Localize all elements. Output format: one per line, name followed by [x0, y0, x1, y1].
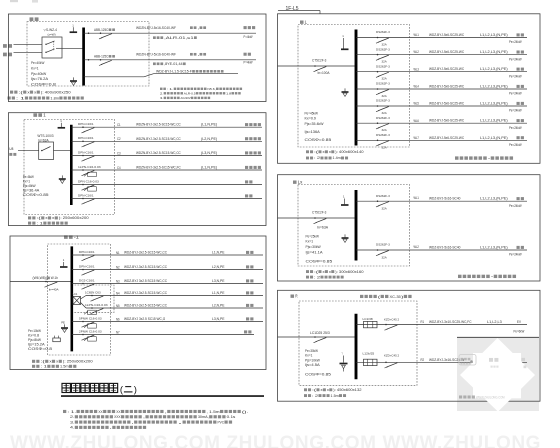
svg-text:Pe=24kW: Pe=24kW — [509, 126, 522, 130]
drawing notes — [63, 410, 66, 413]
svg-text:1LPN-C16-0.03: 1LPN-C16-0.03 — [78, 165, 101, 169]
svg-text:1F-L5: 1F-L5 — [286, 6, 299, 12]
panel ALx mounting note — [306, 276, 309, 279]
svg-text:Kx=0.8: Kx=0.8 — [28, 334, 39, 338]
load name label WL5 AL — [517, 102, 520, 105]
svg-text:(L1,N,PE): (L1,N,PE) — [201, 166, 217, 170]
svg-text:Ijs=36.4A: Ijs=36.4A — [23, 189, 41, 193]
node N bar AR — [343, 356, 345, 363]
breaker C3 AE-1 — [82, 155, 84, 157]
svg-text:x: x — [27, 90, 29, 94]
svg-text:x: x — [45, 216, 47, 220]
svg-text:2.: 2. — [160, 91, 164, 95]
svg-text:,: , — [197, 52, 199, 56]
svg-text:WDZN-BYJ-3x2.5-SC15-WC,CC: WDZN-BYJ-3x2.5-SC15-WC,CC — [136, 151, 181, 155]
svg-text:): 400x900x250: ): 400x900x250 — [41, 90, 71, 94]
svg-text:Pjs=8kW: Pjs=8kW — [28, 338, 42, 342]
breaker WL2 AL — [377, 54, 379, 56]
svg-text:Pe=24kW: Pe=24kW — [509, 92, 522, 96]
ground PE bar AW — [73, 77, 75, 80]
wire circuit C4 AE-1 — [71, 169, 262, 171]
svg-text:WDZN-BYJ-5x16-SC40-WF: WDZN-BYJ-5x16-SC40-WF — [136, 52, 176, 56]
svg-text:WDZ-BYJ-5x6-SC25-WC: WDZ-BYJ-5x6-SC25-WC — [429, 67, 465, 71]
svg-text:WDZ-BYJ-L1.5-SC15-F: WDZ-BYJ-L1.5-SC15-F — [156, 69, 192, 73]
svg-text:ALR-0.5: ALR-0.5 — [184, 91, 196, 95]
svg-text:(W6,W8)(: (W6,W8)( — [33, 276, 48, 280]
wire incoming AL — [278, 65, 355, 67]
wire circuit WL4 AL — [356, 88, 527, 90]
svg-text:WDZ-BYJ-3x2.5-SC15-WC,CC: WDZ-BYJ-3x2.5-SC15-WC,CC — [124, 291, 168, 295]
load name label WL2 AL — [517, 50, 520, 53]
svg-text:DS262F-3: DS262F-3 — [376, 133, 390, 137]
breaker WL2 ALx — [377, 249, 379, 251]
svg-text:: 1: : 1 — [37, 221, 43, 225]
breaker QF R1 AR — [385, 324, 387, 326]
wire circuit C3 AE-1 — [71, 155, 262, 157]
svg-text:,: , — [197, 26, 199, 30]
panel AE-1 dashed boundary — [24, 120, 115, 215]
svg-text:Ijs=136A: Ijs=136A — [304, 130, 320, 134]
svg-text:WDZ-BYJ-5x6-SC25-WC: WDZ-BYJ-5x6-SC25-WC — [429, 33, 465, 37]
load name W2 spare — [244, 53, 247, 56]
svg-text:3.: 3. — [160, 96, 164, 100]
breaker QF0 AE-1 contact — [41, 150, 42, 151]
wire circuit C1 AE-1 — [71, 126, 262, 128]
svg-text:32A: 32A — [382, 145, 388, 149]
svg-text:,: , — [132, 419, 134, 424]
svg-text:: 2: : 2 — [314, 275, 320, 279]
svg-text:): 450x600x132: ): 450x600x132 — [333, 388, 361, 392]
sub-diagram caption vertical riser — [455, 156, 459, 159]
title underline — [61, 395, 264, 397]
svg-text:DS262F-3: DS262F-3 — [376, 82, 390, 86]
ground PE bar AL — [344, 88, 346, 91]
breaker C2 AE-1 — [82, 141, 84, 143]
svg-text:WDZ-BYJ-3x2.5-SC15-WC,CC: WDZ-BYJ-3x2.5-SC15-WC,CC — [124, 265, 168, 269]
svg-text:DPN C16-0.03: DPN C16-0.03 — [78, 179, 99, 183]
svg-text:x: x — [329, 270, 331, 274]
watermark background square — [457, 337, 539, 411]
svg-text:(L1,N,PE): (L1,N,PE) — [201, 123, 217, 127]
breaker QF2 — [88, 59, 90, 61]
panel AW dashed boundary — [27, 22, 149, 87]
svg-text:Kx=0.9: Kx=0.9 — [305, 116, 317, 120]
load name label WL1 AL — [517, 33, 520, 36]
busbar AL — [355, 30, 358, 146]
svg-text:Pe=24kW: Pe=24kW — [509, 109, 522, 113]
svg-text:1.4m: 1.4m — [333, 156, 341, 160]
node N bar AL — [343, 38, 345, 49]
load name label N6 AL-1 — [246, 317, 249, 320]
svg-text:2PNW C16-0.03: 2PNW C16-0.03 — [79, 329, 102, 333]
load name label WL1 ALx — [517, 197, 520, 200]
breaker C1 AE-1 — [82, 126, 84, 128]
panel ALx enclosure — [278, 175, 541, 281]
svg-text:KZD+C45 2: KZD+C45 2 — [384, 318, 399, 322]
svg-text:): 250x600x200: ): 250x600x200 — [59, 216, 89, 220]
load name label N3 AL-1 — [246, 279, 249, 282]
breaker WL3 AL — [377, 71, 379, 73]
sub-diagram caption lift machine room — [458, 275, 462, 278]
svg-text:().: (). — [242, 409, 249, 414]
load name label N4 AL-1 — [246, 291, 249, 294]
svg-text:WL4: WL4 — [414, 85, 420, 89]
svg-text:Pe=24kW: Pe=24kW — [509, 74, 522, 78]
breaker QF1 — [88, 32, 90, 34]
load name label N5 AL-1 — [246, 304, 249, 307]
breaker WL7 AL — [377, 140, 379, 142]
wire circuit WL1 AL — [356, 37, 527, 39]
dashed boundary RCD sub-assembly — [72, 285, 115, 313]
breaker N4 AL-1 — [91, 295, 93, 297]
svg-text:Pe=24kW: Pe=24kW — [509, 57, 522, 61]
svg-text:x: x — [49, 360, 51, 364]
svg-text:WWW.ZHULONG.COM: WWW.ZHULONG.COM — [476, 395, 505, 399]
svg-text:C3: C3 — [117, 151, 121, 155]
wire circuit N3 AL-1 — [72, 283, 263, 285]
svg-text:Kx=1: Kx=1 — [305, 354, 313, 358]
switch QS ALx — [314, 217, 316, 219]
svg-text:DPN-C16/1: DPN-C16/1 — [78, 193, 94, 197]
panel AR dashed boundary — [299, 301, 417, 385]
svg-text:L3,N,PE: L3,N,PE — [212, 317, 225, 321]
ground PE bar AL-1 — [64, 324, 66, 327]
switch QS AL — [314, 65, 316, 67]
svg-text:N1: N1 — [116, 251, 120, 255]
svg-text:4.: 4. — [70, 425, 74, 430]
route label W1 — [190, 26, 193, 29]
svg-text:WDZN-BYJ-3x2.5-SC15-WC,FC: WDZN-BYJ-3x2.5-SC15-WC,FC — [136, 166, 181, 170]
breaker QF0 AE-1 body — [39, 142, 54, 160]
svg-text:COSΦ=0.85: COSΦ=0.85 — [23, 193, 49, 197]
svg-text:2.: 2. — [70, 414, 74, 419]
svg-text:32A: 32A — [382, 111, 388, 115]
wire circuit N7 AL-1 — [72, 334, 254, 336]
wire circuit N6 AL-1 — [72, 321, 263, 323]
svg-text:DS262F-3: DS262F-3 — [376, 116, 390, 120]
load name label WL6 AL — [517, 119, 520, 122]
svg-text:1.8: 1.8 — [226, 91, 231, 95]
breaker WL5 AL — [377, 105, 379, 107]
load name label WL3 AL — [517, 68, 520, 71]
svg-text:x: x — [329, 150, 331, 154]
route label W2 — [190, 53, 193, 56]
svg-text:L3,N,PE: L3,N,PE — [212, 279, 225, 283]
svg-text:COSΦ=0.8: COSΦ=0.8 — [31, 82, 56, 86]
svg-text:32A: 32A — [382, 77, 388, 81]
breaker N2 AL-1 — [82, 269, 84, 271]
svg-text:x: x — [34, 90, 36, 94]
svg-text:-1: -1 — [74, 235, 80, 240]
wire QF0 to busbar — [54, 150, 71, 152]
svg-text:L1,L2,L3,(N,PE): L1,L2,L3,(N,PE) — [480, 85, 508, 89]
breaker WL1 AL — [377, 37, 379, 39]
svg-text:N4: N4 — [116, 291, 120, 295]
svg-text:L1,L2,L3,(N,PE): L1,L2,L3,(N,PE) — [480, 102, 508, 106]
svg-text:x: x — [327, 388, 329, 392]
svg-text:(x=W): (x=W) — [48, 32, 56, 36]
panel AL enclosure — [278, 14, 541, 164]
svg-text:Kx=1: Kx=1 — [31, 67, 39, 71]
svg-text:L1,N,PE: L1,N,PE — [212, 251, 225, 255]
svg-text:XX: XX — [98, 409, 103, 414]
panel AE-1 enclosure — [8, 113, 266, 226]
svg-text:,ALR-01,≤1: ,ALR-01,≤1 — [164, 36, 194, 40]
svg-text:N6: N6 — [116, 317, 120, 321]
svg-text:Kx=1: Kx=1 — [23, 180, 31, 184]
contactor coil block KA AL-1 — [73, 297, 81, 305]
svg-text:WL2: WL2 — [414, 245, 420, 249]
svg-text:: 2: : 2 — [314, 156, 320, 160]
contactor KM C5 AE-1 — [84, 188, 88, 191]
svg-text:WL2: WL2 — [414, 50, 420, 54]
svg-text:(L2,N,PE): (L2,N,PE) — [201, 137, 217, 141]
svg-text:x: x — [322, 270, 324, 274]
svg-text:Pjs=35.4kW: Pjs=35.4kW — [305, 122, 325, 126]
svg-text:Pe=25kW: Pe=25kW — [306, 234, 320, 238]
svg-text:1.5m: 1.5m — [60, 365, 69, 369]
svg-text:,: , — [110, 425, 112, 430]
panel AL-1 name label — [64, 235, 68, 239]
panel AL dimension label — [306, 150, 309, 153]
wire circuit WL2 ALx — [356, 249, 527, 251]
svg-text:32A: 32A — [382, 207, 388, 211]
wire circuit R2 AR — [356, 361, 527, 363]
breaker WL4 AL — [377, 88, 379, 90]
svg-text:R: R — [295, 294, 297, 299]
svg-text:WDZ-BYJ-5x16-SC40: WDZ-BYJ-5x16-SC40 — [429, 197, 461, 201]
busbar AR — [355, 314, 358, 380]
switch QS AR — [314, 336, 316, 338]
breaker N6 AL-1 — [82, 321, 84, 323]
panel AR caption escalator supply — [360, 295, 363, 298]
svg-text:Pe=40kW: Pe=40kW — [31, 61, 45, 65]
svg-text:PVC: PVC — [218, 419, 225, 424]
svg-text:): ) — [134, 385, 137, 396]
svg-text:: 1: : 1 — [41, 365, 47, 369]
panel AL dashed boundary — [298, 25, 410, 148]
wire circuit C5 AE-1 — [71, 184, 262, 186]
wire circuit N5 AL-1 — [81, 303, 87, 309]
wire incoming AE-1 — [18, 150, 39, 152]
busbar AE-1 — [70, 125, 73, 205]
wire circuit WL6 AL — [356, 122, 527, 124]
svg-text:XX: XX — [116, 409, 121, 414]
surge protector SPD AL-1 — [53, 338, 61, 342]
svg-text:,: , — [165, 409, 167, 414]
svg-text:Pjs=8kW: Pjs=8kW — [23, 184, 37, 188]
watermark seal outline — [459, 355, 476, 366]
svg-text:WDZ-BYJ-3x10-SC25-WC,FC: WDZ-BYJ-3x10-SC25-WC,FC — [429, 320, 472, 324]
svg-text:Pe=24kW: Pe=24kW — [509, 253, 522, 257]
svg-text:32A: 32A — [382, 60, 388, 64]
svg-text:DS262F-3: DS262F-3 — [376, 243, 390, 247]
svg-text:WDZ-BYJ-5x6-SC25-WC: WDZ-BYJ-5x6-SC25-WC — [429, 119, 465, 123]
busbar AW — [82, 28, 85, 86]
breaker C5 AE-1 — [82, 184, 84, 186]
load name W1 fire hydrant — [244, 26, 247, 29]
svg-text:Pe=24kW: Pe=24kW — [509, 204, 522, 208]
svg-text:Ijs=41.1A: Ijs=41.1A — [305, 251, 323, 255]
svg-text:WDZ-BYJ-5x6-SC25-WC: WDZ-BYJ-5x6-SC25-WC — [429, 50, 465, 54]
load name label N7 AL-1 — [244, 330, 247, 333]
svg-text:WL1: WL1 — [414, 33, 420, 37]
wire ATS output to busbar — [62, 47, 83, 49]
panel AL name label — [300, 20, 304, 23]
svg-text:XC-35: XC-35 — [390, 294, 402, 299]
load name label WL4 AL — [517, 85, 520, 88]
node N bar ALx — [344, 199, 346, 205]
svg-text:C4: C4 — [117, 166, 121, 170]
svg-text:: 1.: : 1. — [67, 409, 76, 414]
svg-text:,: , — [143, 414, 145, 419]
breaker C4 AE-1 — [82, 169, 84, 171]
panel AW name label — [30, 17, 34, 21]
node standby supply label — [3, 53, 7, 57]
svg-text:LC1: LC1 — [73, 292, 78, 296]
panel AL-1 dimension label — [32, 360, 35, 363]
svg-text:N2: N2 — [116, 265, 120, 269]
watermark faint text right — [522, 358, 526, 361]
wire circuit N4 AL-1 — [81, 296, 87, 300]
svg-text:LC1/38: LC1/38 — [363, 317, 373, 321]
wire circuit C2 AE-1 — [71, 140, 262, 142]
wire incoming ALx — [278, 217, 355, 219]
node N bar AW — [70, 31, 78, 33]
load name label C3 AE-1 — [245, 151, 248, 154]
svg-text:N5: N5 — [116, 304, 120, 308]
svg-text:DPN-C16/1: DPN-C16/1 — [78, 150, 94, 154]
svg-text:L2,N,PE: L2,N,PE — [212, 304, 225, 308]
contactor KM N7 AL-1 — [84, 338, 88, 341]
watermark square top edge — [457, 336, 539, 338]
svg-text:Pe=24kW: Pe=24kW — [509, 40, 522, 44]
svg-text:L2,N,PE: L2,N,PE — [212, 265, 225, 269]
contactor KM2 AR body — [364, 359, 378, 365]
wire incoming AR — [278, 336, 355, 338]
ATS contacts — [45, 44, 46, 45]
wire circuit N2 AL-1 — [72, 269, 263, 271]
panel AW mounting note — [8, 96, 11, 99]
panel AL-1 enclosure — [10, 236, 266, 370]
load name label C2 AE-1 — [245, 137, 248, 140]
svg-text:, 1.5m: , 1.5m — [207, 409, 220, 414]
breaker N1 AL-1 — [82, 254, 84, 256]
breaker WL6 AL — [377, 122, 379, 124]
wire circuit WL5 AL — [356, 105, 527, 107]
svg-text:32A: 32A — [382, 128, 388, 132]
svg-text:Ijs=76.2A: Ijs=76.2A — [31, 77, 49, 81]
svg-text:): 300x600x160: ): 300x600x160 — [335, 270, 363, 274]
wire feeder W3 — [84, 76, 144, 78]
svg-text:P=4kW: P=4kW — [244, 61, 253, 65]
drawing title — [62, 383, 70, 392]
wire circuit WL3 AL — [356, 71, 527, 73]
svg-text:x: x — [56, 360, 58, 364]
panel AE-1 mounting note — [28, 222, 31, 225]
wire circuit R1 AR — [356, 324, 527, 326]
watermark faint url text — [459, 395, 462, 398]
svg-text:DG2-C16/1: DG2-C16/1 — [79, 278, 95, 282]
svg-text:1.5m: 1.5m — [331, 394, 339, 398]
load name label N1 AL-1 — [246, 251, 249, 254]
stray text fragment top edge — [10, 0, 18, 2]
svg-text:C1: C1 — [117, 123, 121, 127]
wire circuit WL2 AL — [356, 54, 527, 56]
svg-text:WL1: WL1 — [414, 196, 420, 200]
svg-text:Pjs=30kW: Pjs=30kW — [306, 245, 322, 249]
panel AR dimension label — [304, 388, 307, 391]
svg-text:: 2: : 2 — [312, 394, 318, 398]
sub label W2 — [153, 62, 156, 65]
svg-text:x: x — [320, 388, 322, 392]
svg-text:CT5C2F-3: CT5C2F-3 — [312, 211, 327, 215]
switch QS AL-1 — [45, 281, 47, 283]
svg-text:Pe=6kW: Pe=6kW — [514, 329, 525, 333]
svg-text:Ijs=15.2A: Ijs=15.2A — [28, 343, 46, 347]
wire normal supply — [14, 43, 43, 45]
svg-text:L1,L2,L3,(N,PE): L1,L2,L3,(N,PE) — [480, 119, 508, 123]
svg-text:WL3: WL3 — [414, 67, 420, 71]
svg-text:WWW.ZHULONG.COM ZHULONG.COM WW: WWW.ZHULONG.COM ZHULONG.COM WWW.ZHULONG — [10, 433, 541, 448]
svg-text:x: x — [52, 216, 54, 220]
panel ALx name label — [293, 180, 297, 183]
svg-text:PE: PE — [61, 321, 65, 325]
svg-text:R2: R2 — [421, 358, 425, 362]
svg-text:: 1: : 1 — [16, 96, 25, 100]
ground PE bar AE-1 — [61, 175, 63, 178]
svg-text:Pe=45kW: Pe=45kW — [305, 111, 319, 115]
breaker N7 AL-1 — [82, 334, 84, 336]
svg-text:Pjs=10kW: Pjs=10kW — [305, 358, 321, 362]
svg-text:: 1.: : 1. — [167, 87, 174, 91]
svg-text:Pe=8kW: Pe=8kW — [23, 175, 35, 179]
busbar ALx — [355, 190, 358, 261]
panel AR mounting note — [304, 394, 307, 397]
panel AW dimension label — [10, 91, 13, 94]
svg-text:Kx=1: Kx=1 — [306, 240, 314, 244]
svg-text:N7: N7 — [116, 330, 120, 334]
busbar AL-1 — [71, 246, 74, 351]
svg-text:3.: 3. — [70, 419, 74, 424]
load name label N2 AL-1 — [246, 265, 249, 268]
grid reference tag 1F-L5 — [278, 10, 320, 12]
svg-text:WDZ-BYJ-5x16-SC40: WDZ-BYJ-5x16-SC40 — [429, 246, 461, 250]
svg-text:LC1D25 25/3: LC1D25 25/3 — [310, 331, 330, 335]
panel AL mounting note — [306, 157, 309, 160]
svg-text:COSΦ=0.8: COSΦ=0.8 — [28, 347, 52, 351]
wire incoming AL-1 — [10, 281, 71, 283]
svg-text:DS262F-3: DS262F-3 — [376, 47, 390, 51]
node N bar AL-1 — [60, 266, 68, 268]
svg-text:KZD+C45 2: KZD+C45 2 — [384, 353, 399, 357]
svg-text:L1,L2,L3,(N,PE): L1,L2,L3,(N,PE) — [480, 33, 508, 37]
svg-text:WDZ-BYJ 3x2.5 SC15 WC,CC: WDZ-BYJ 3x2.5 SC15 WC,CC — [124, 279, 168, 283]
panel AL-1 dashed boundary — [48, 244, 111, 355]
svg-text:): 400x600x140: ): 400x600x140 — [335, 150, 363, 154]
svg-text:WDZ-BYJ-3x16-SC25-W: WDZ-BYJ-3x16-SC25-W — [429, 358, 465, 362]
svg-text:AC220V: AC220V — [180, 96, 190, 100]
svg-text:L1,N,PE: L1,N,PE — [212, 291, 225, 295]
breaker QF R2 AR — [385, 362, 387, 364]
svg-text:L1,L2,L3,(N,PE): L1,L2,L3,(N,PE) — [480, 136, 508, 140]
panel ALx dimension label — [306, 270, 309, 273]
wire feeder W2 — [84, 59, 256, 61]
node normal supply label — [3, 44, 7, 48]
svg-text:P=4kW: P=4kW — [244, 35, 253, 39]
svg-text:R1: R1 — [421, 320, 425, 324]
svg-text:In=100A: In=100A — [318, 71, 331, 75]
